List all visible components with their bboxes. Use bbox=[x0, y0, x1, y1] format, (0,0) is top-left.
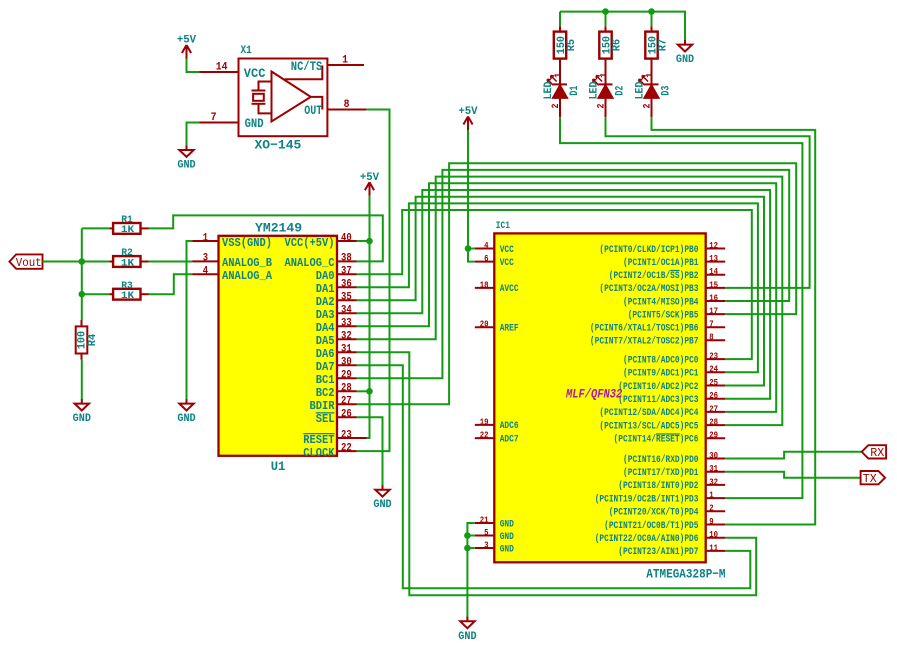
wire X1 OUT to U1 CLOCK bbox=[357, 110, 390, 452]
connector flag TX bbox=[861, 471, 886, 486]
connector flag Vout bbox=[9, 254, 42, 270]
wire R2 to U1 ANALOG_B bbox=[149, 261, 193, 263]
svg-text:BC1: BC1 bbox=[316, 373, 335, 387]
X1 pin 7 GND bbox=[200, 112, 264, 131]
resistor R3 1K bbox=[109, 280, 148, 302]
svg-text:22: 22 bbox=[480, 430, 489, 441]
svg-text:29: 29 bbox=[709, 430, 718, 441]
svg-text:32: 32 bbox=[341, 331, 352, 343]
U1 pin 28 BC2 bbox=[316, 383, 357, 401]
svg-text:35: 35 bbox=[341, 292, 352, 304]
wire DA7 to PD7 bbox=[357, 365, 751, 588]
svg-text:16: 16 bbox=[709, 292, 718, 303]
IC1 pin 20 AREF bbox=[475, 319, 519, 335]
IC1 pin 19 ADC6 bbox=[475, 416, 519, 432]
svg-text:28: 28 bbox=[341, 383, 352, 395]
svg-text:GND: GND bbox=[177, 160, 196, 172]
svg-text:(PCINT14/RESET)PC6: (PCINT14/RESET)PC6 bbox=[614, 434, 699, 446]
wire PD1 to TX flag bbox=[725, 472, 860, 478]
IC1 pin 13 (PCINT1/OC1A)PB1 bbox=[623, 253, 725, 269]
wire DA3 to PC3 bbox=[357, 190, 771, 399]
IC1 pin 14 (PCINT2/OC1B/SS)PB2 bbox=[609, 266, 725, 282]
svg-text:25: 25 bbox=[709, 377, 718, 388]
svg-text:DA6: DA6 bbox=[316, 347, 335, 361]
crystal inside X1 bbox=[252, 82, 272, 114]
svg-text:VCC: VCC bbox=[500, 258, 514, 269]
svg-text:VCC(+5V): VCC(+5V) bbox=[285, 236, 335, 250]
X1 pin 1 NC/TS bbox=[291, 55, 364, 75]
IC1 pin 6 VCC bbox=[475, 253, 514, 269]
wire DA4 to PC4 bbox=[357, 183, 777, 412]
svg-text:YM2149: YM2149 bbox=[255, 221, 302, 236]
svg-text:(PCINT16/RXD)PD0: (PCINT16/RXD)PD0 bbox=[623, 454, 699, 466]
svg-text:D1: D1 bbox=[569, 85, 581, 95]
svg-text:(PCINT19/OC2B/INT1)PD3: (PCINT19/OC2B/INT1)PD3 bbox=[595, 493, 699, 505]
+5V supply bbox=[458, 106, 478, 130]
resistor R2 1K bbox=[109, 247, 148, 269]
wire X1 pin 7 to ground bbox=[187, 123, 200, 146]
node IC1 VCC junction bbox=[465, 245, 472, 252]
oscillator X1 body bbox=[239, 59, 328, 137]
svg-text:(PCINT10/ADC2)PC2: (PCINT10/ADC2)PC2 bbox=[618, 381, 698, 393]
svg-text:(PCINT21/OC0B/T1)PD5: (PCINT21/OC0B/T1)PD5 bbox=[604, 520, 698, 532]
svg-text:(PCINT20/XCK/T0)PD4: (PCINT20/XCK/T0)PD4 bbox=[609, 507, 699, 519]
wire U1 VSS pin1 to ground bbox=[187, 241, 193, 400]
svg-text:GND: GND bbox=[500, 532, 514, 543]
svg-text:27: 27 bbox=[341, 396, 352, 408]
svg-text:(PCINT18/INT0)PD2: (PCINT18/INT0)PD2 bbox=[618, 480, 698, 492]
svg-text:(PCINT2/OC1B/SS)PB2: (PCINT2/OC1B/SS)PB2 bbox=[609, 270, 699, 282]
node rail/R7 junction bbox=[648, 8, 655, 15]
wire IC1 pin5 stub bbox=[467, 535, 474, 537]
wire Vout to junction bbox=[43, 261, 82, 263]
svg-text:10: 10 bbox=[709, 529, 718, 540]
svg-text:+5V: +5V bbox=[360, 172, 380, 184]
X1 internal connection to OUT bbox=[311, 97, 323, 110]
U1 pin 34 DA3 bbox=[316, 305, 357, 323]
svg-text:SEL: SEL bbox=[316, 412, 335, 426]
svg-text:D3: D3 bbox=[660, 85, 672, 95]
U1 pin 35 DA2 bbox=[316, 292, 357, 310]
svg-text:21: 21 bbox=[480, 514, 489, 525]
svg-text:AREF: AREF bbox=[500, 324, 519, 335]
svg-text:LED: LED bbox=[543, 81, 555, 99]
svg-text:11: 11 bbox=[709, 542, 718, 553]
svg-text:1: 1 bbox=[203, 232, 209, 244]
svg-text:GND: GND bbox=[676, 54, 695, 66]
IC U1 YM2149 body bbox=[219, 236, 338, 456]
ground at LED rail bbox=[676, 40, 695, 66]
svg-text:DA0: DA0 bbox=[316, 269, 335, 283]
svg-text:30: 30 bbox=[709, 450, 718, 461]
IC1 pin 4 VCC bbox=[475, 240, 514, 256]
svg-text:NC/TS: NC/TS bbox=[291, 60, 323, 74]
svg-text:(PCINT22/OC0A/AIN0)PD6: (PCINT22/OC0A/AIN0)PD6 bbox=[595, 533, 699, 545]
node rail/R6 junction bbox=[602, 8, 609, 15]
svg-text:(PCINT23/AIN1)PD7: (PCINT23/AIN1)PD7 bbox=[618, 546, 698, 558]
connector flag RX bbox=[862, 445, 886, 460]
svg-text:GND: GND bbox=[458, 631, 477, 643]
svg-text:(PCINT12/SDA/ADC4)PC4: (PCINT12/SDA/ADC4)PC4 bbox=[599, 407, 698, 419]
node Vout/R3 junction bbox=[79, 291, 86, 298]
svg-text:IC1: IC1 bbox=[496, 221, 510, 232]
svg-text:33: 33 bbox=[341, 318, 352, 330]
svg-text:GND: GND bbox=[177, 413, 196, 425]
svg-text:GND: GND bbox=[245, 117, 264, 131]
svg-text:8: 8 bbox=[344, 99, 350, 111]
IC1 pin 26 (PCINT11/ADC3)PC3 bbox=[618, 390, 725, 406]
wire rail to R5 bbox=[559, 12, 561, 27]
svg-text:ADC7: ADC7 bbox=[500, 434, 519, 445]
IC1 pin 21 GND bbox=[475, 514, 514, 530]
svg-text:R6: R6 bbox=[612, 39, 624, 51]
svg-text:GND: GND bbox=[500, 519, 514, 530]
U1 pin 33 DA4 bbox=[316, 318, 357, 336]
IC1 pin 12 (PCINT0/CLKD/ICP1)PB0 bbox=[599, 240, 725, 256]
wire PD0 to RX flag bbox=[725, 452, 862, 459]
ground below R4 bbox=[73, 399, 92, 425]
svg-text:DA3: DA3 bbox=[316, 308, 335, 322]
IC1 pin 22 ADC7 bbox=[475, 430, 519, 446]
svg-text:XO−145: XO−145 bbox=[255, 138, 302, 153]
svg-text:37: 37 bbox=[341, 266, 352, 278]
U1 pin 37 DA0 bbox=[316, 266, 357, 284]
ground below IC1 bbox=[458, 617, 477, 643]
svg-text:(PCINT8/ADC0)PC0: (PCINT8/ADC0)PC0 bbox=[623, 354, 699, 366]
resistor R4 100 bbox=[76, 320, 99, 360]
U1 pin 31 DA6 bbox=[316, 344, 357, 362]
svg-text:(PCINT7/XTAL2/TOSC2)PB7: (PCINT7/XTAL2/TOSC2)PB7 bbox=[590, 336, 699, 348]
svg-text:23: 23 bbox=[709, 351, 718, 362]
wire U1 BC2 to +5V rail bbox=[357, 390, 370, 392]
svg-text:(PCINT3/OC2A/MOSI)PB3: (PCINT3/OC2A/MOSI)PB3 bbox=[599, 283, 698, 295]
svg-text:ANALOG_C: ANALOG_C bbox=[285, 256, 335, 270]
wire DA6 to PD6 bbox=[357, 352, 757, 595]
svg-text:23: 23 bbox=[341, 429, 352, 441]
svg-text:(PCINT0/CLKD/ICP1)PB0: (PCINT0/CLKD/ICP1)PB0 bbox=[599, 244, 698, 256]
wire junction to R1 left bbox=[82, 227, 110, 229]
wire LED ground rail bbox=[560, 12, 685, 41]
wire DA5 to PC5 bbox=[357, 177, 783, 426]
node BC2 junction bbox=[366, 388, 373, 395]
svg-text:2: 2 bbox=[551, 104, 562, 109]
svg-text:1K: 1K bbox=[121, 224, 135, 236]
wire IC1 GND pins to ground bbox=[467, 523, 474, 618]
wire BDIR to PB5 bbox=[357, 163, 797, 404]
svg-text:R4: R4 bbox=[87, 333, 99, 346]
svg-text:1: 1 bbox=[554, 73, 565, 78]
svg-text:TX: TX bbox=[863, 472, 877, 486]
U1 pin 40 VCC(+5V) bbox=[285, 232, 357, 250]
svg-text:(PCINT4/MISO)PB4: (PCINT4/MISO)PB4 bbox=[623, 296, 699, 308]
IC1 pin 8 (PCINT7/XTAL2/TOSC2)PB7 bbox=[590, 332, 725, 348]
svg-text:DA4: DA4 bbox=[316, 321, 335, 335]
wire R3 to U1 ANALOG_A bbox=[149, 274, 193, 294]
svg-text:DA2: DA2 bbox=[316, 295, 335, 309]
svg-text:GND: GND bbox=[373, 499, 392, 511]
svg-text:14: 14 bbox=[709, 266, 718, 277]
wire D1 to PD3 bbox=[560, 117, 802, 498]
IC1 pin 17 (PCINT5/SCK)PB5 bbox=[628, 306, 726, 322]
IC1 pin 10 (PCINT22/OC0A/AIN0)PD6 bbox=[595, 529, 726, 545]
svg-text:17: 17 bbox=[709, 306, 718, 317]
wire DA0 to PC0 bbox=[357, 210, 752, 359]
node +5V/pin40 junction bbox=[366, 238, 373, 245]
svg-text:38: 38 bbox=[341, 253, 352, 265]
svg-text:2: 2 bbox=[596, 104, 607, 109]
svg-text:26: 26 bbox=[341, 409, 352, 421]
svg-text:(PCINT5/SCK)PB5: (PCINT5/SCK)PB5 bbox=[628, 309, 699, 321]
wire DA1 to PC1 bbox=[357, 203, 758, 372]
svg-text:7: 7 bbox=[211, 112, 217, 124]
resistor R1 1K bbox=[109, 214, 148, 236]
LED D3 bbox=[635, 73, 673, 117]
svg-text:R5: R5 bbox=[566, 39, 578, 52]
svg-text:VCC: VCC bbox=[500, 245, 514, 256]
svg-text:VSS(GND): VSS(GND) bbox=[222, 236, 272, 250]
wire junction to R2 left bbox=[82, 261, 110, 263]
IC1 pin 15 (PCINT3/OC2A/MOSI)PB3 bbox=[599, 279, 725, 295]
wire rail to R7 bbox=[651, 12, 653, 27]
IC1 pin 18 AVCC bbox=[475, 279, 519, 295]
resistor R5 150 bbox=[554, 26, 578, 84]
svg-text:2: 2 bbox=[642, 104, 653, 109]
+5V supply bbox=[177, 35, 197, 59]
IC1 pin 2 (PCINT20/XCK/T0)PD4 bbox=[609, 503, 725, 519]
IC IC1 ATMEGA328P-M body bbox=[494, 233, 705, 562]
node IC1 GND pin3 junction bbox=[464, 545, 471, 552]
wire +5V to IC1 VCC pins bbox=[468, 130, 475, 262]
svg-text:VCC: VCC bbox=[244, 67, 266, 81]
U1 pin 3 ANALOG_B bbox=[193, 253, 273, 271]
svg-text:19: 19 bbox=[480, 416, 489, 427]
IC1 pin 16 (PCINT4/MISO)PB4 bbox=[623, 292, 725, 308]
svg-text:(PCINT17/TXD)PD1: (PCINT17/TXD)PD1 bbox=[623, 467, 699, 479]
svg-text:4: 4 bbox=[484, 240, 489, 251]
U1 pin 38 ANALOG_C bbox=[285, 253, 357, 271]
svg-text:1K: 1K bbox=[121, 257, 135, 269]
U1 pin 32 DA5 bbox=[316, 331, 357, 349]
wire BC1 to PB4 bbox=[357, 170, 790, 378]
svg-text:GND: GND bbox=[500, 544, 514, 555]
IC1 pin 5 GND bbox=[475, 527, 514, 543]
wire rail to R6 bbox=[605, 12, 607, 27]
svg-text:BDIR: BDIR bbox=[310, 399, 336, 413]
svg-text:MLF/QFN32: MLF/QFN32 bbox=[565, 386, 622, 401]
resistor R7 150 bbox=[645, 26, 669, 84]
IC1 pin 11 (PCINT23/AIN1)PD7 bbox=[618, 542, 725, 558]
svg-text:30: 30 bbox=[341, 357, 352, 369]
svg-text:1: 1 bbox=[342, 55, 348, 67]
wire D2 to PB3 bbox=[606, 117, 810, 288]
svg-text:ATMEGA328P−M: ATMEGA328P−M bbox=[646, 566, 725, 581]
svg-text:(PCINT1/OC1A)PB1: (PCINT1/OC1A)PB1 bbox=[623, 257, 699, 269]
IC1 pin 25 (PCINT10/ADC2)PC2 bbox=[618, 377, 725, 393]
U1 pin 23 RESET bbox=[303, 429, 366, 447]
svg-text:40: 40 bbox=[341, 232, 352, 244]
svg-text:3: 3 bbox=[484, 539, 489, 550]
svg-text:9: 9 bbox=[709, 516, 714, 527]
svg-text:28: 28 bbox=[709, 417, 718, 428]
wire IC1 pin3 stub bbox=[467, 547, 474, 549]
U1 pin 27 BDIR bbox=[310, 396, 357, 414]
svg-text:27: 27 bbox=[709, 403, 718, 414]
svg-text:4: 4 bbox=[203, 266, 209, 278]
svg-text:LED: LED bbox=[635, 81, 647, 99]
svg-text:RESET: RESET bbox=[303, 433, 334, 447]
svg-text:DA1: DA1 bbox=[316, 282, 335, 296]
U1 pin 30 DA7 bbox=[316, 357, 357, 375]
IC1 pin 1 (PCINT19/OC2B/INT1)PD3 bbox=[595, 490, 726, 506]
svg-text:DA7: DA7 bbox=[316, 360, 335, 374]
LED D2 bbox=[589, 73, 627, 117]
IC1 pin 23 (PCINT8/ADC0)PC0 bbox=[623, 351, 725, 367]
svg-text:31: 31 bbox=[341, 344, 352, 356]
wire Vout net vertical bbox=[81, 228, 83, 294]
U1 pin 1 VSS(GND) bbox=[193, 232, 273, 250]
svg-text:1: 1 bbox=[709, 490, 714, 501]
svg-text:CLOCK: CLOCK bbox=[303, 446, 335, 460]
X1 pin 14 VCC bbox=[200, 62, 266, 82]
svg-text:R7: R7 bbox=[658, 39, 670, 51]
svg-text:8: 8 bbox=[709, 332, 714, 343]
wire R1 to U1 ANALOG_C bbox=[149, 215, 383, 261]
IC1 pin 7 (PCINT6/XTAL1/TOSC1)PB6 bbox=[590, 319, 725, 335]
IC1 pin 3 GND bbox=[475, 539, 514, 555]
svg-text:(PCINT11/ADC3)PC3: (PCINT11/ADC3)PC3 bbox=[618, 394, 698, 406]
svg-text:RX: RX bbox=[870, 446, 884, 460]
wire U1 SEL to ground bbox=[357, 417, 383, 486]
svg-text:15: 15 bbox=[709, 279, 718, 290]
U1 pin 26 SEL bbox=[316, 409, 357, 427]
IC1 pin 9 (PCINT21/OC0B/T1)PD5 bbox=[604, 516, 725, 532]
svg-text:LED: LED bbox=[589, 81, 601, 99]
ground at U1 SEL bbox=[373, 485, 392, 511]
svg-text:5: 5 bbox=[484, 527, 489, 538]
svg-text:13: 13 bbox=[709, 253, 718, 264]
wire +5V to X1 pin 14 bbox=[187, 59, 200, 73]
LED D1 bbox=[543, 73, 581, 117]
svg-text:32: 32 bbox=[709, 476, 718, 487]
ground at U1 VSS bbox=[177, 399, 196, 425]
svg-text:(PCINT13/SCL/ADC5)PC5: (PCINT13/SCL/ADC5)PC5 bbox=[599, 420, 698, 432]
wire D3 to PD5 bbox=[652, 117, 816, 524]
svg-text:+5V: +5V bbox=[177, 35, 197, 47]
svg-text:U1: U1 bbox=[271, 459, 286, 474]
svg-text:12: 12 bbox=[709, 240, 718, 251]
IC1 pin 24 (PCINT9/ADC1)PC1 bbox=[623, 364, 725, 380]
svg-text:29: 29 bbox=[341, 370, 352, 382]
svg-text:OUT: OUT bbox=[304, 104, 322, 118]
U1 pin 22 CLOCK bbox=[303, 442, 356, 460]
svg-text:DA5: DA5 bbox=[316, 334, 335, 348]
node Vout/R2 junction bbox=[79, 258, 86, 265]
svg-text:26: 26 bbox=[709, 390, 718, 401]
wire R3 junction to R4 bbox=[81, 294, 83, 320]
X1 pin 8 OUT bbox=[304, 99, 366, 118]
svg-text:7: 7 bbox=[709, 319, 714, 330]
svg-text:GND: GND bbox=[73, 413, 92, 425]
svg-text:+5V: +5V bbox=[458, 106, 478, 118]
svg-text:D2: D2 bbox=[614, 86, 626, 96]
svg-text:BC2: BC2 bbox=[316, 386, 335, 400]
wire junction to R3 left bbox=[82, 293, 110, 295]
IC1 pin 31 (PCINT17/TXD)PD1 bbox=[623, 463, 725, 479]
svg-text:ANALOG_A: ANALOG_A bbox=[222, 269, 273, 283]
svg-text:(PCINT6/XTAL1/TOSC1)PB6: (PCINT6/XTAL1/TOSC1)PB6 bbox=[590, 323, 699, 335]
svg-text:18: 18 bbox=[480, 279, 489, 290]
wire +5V to U1 VCC pin 40 and down to RESET bbox=[367, 196, 370, 438]
IC1 pin 28 (PCINT13/SCL/ADC5)PC5 bbox=[599, 417, 725, 433]
svg-text:34: 34 bbox=[341, 305, 352, 317]
U1 pin 4 ANALOG_A bbox=[193, 266, 273, 284]
U1 pin 29 BC1 bbox=[316, 370, 357, 388]
svg-text:(PCINT9/ADC1)PC1: (PCINT9/ADC1)PC1 bbox=[623, 368, 699, 380]
IC1 pin 27 (PCINT12/SDA/ADC4)PC4 bbox=[599, 403, 725, 419]
svg-text:ADC6: ADC6 bbox=[500, 421, 519, 432]
svg-text:1: 1 bbox=[599, 73, 610, 78]
svg-text:3: 3 bbox=[203, 253, 209, 265]
+5V supply bbox=[360, 172, 380, 196]
node IC1 GND pin5 junction bbox=[464, 532, 471, 539]
wire IC1 pin4 stub bbox=[468, 248, 475, 250]
svg-text:AVCC: AVCC bbox=[500, 284, 519, 295]
svg-text:ANALOG_B: ANALOG_B bbox=[222, 256, 272, 270]
X1 internal connection to NC/TS bbox=[285, 65, 323, 79]
svg-text:6: 6 bbox=[484, 253, 489, 264]
svg-text:36: 36 bbox=[341, 279, 352, 291]
svg-text:14: 14 bbox=[216, 62, 228, 74]
svg-text:2: 2 bbox=[709, 503, 714, 514]
wire R4 to ground bbox=[81, 360, 83, 400]
ground at X1 bbox=[177, 146, 196, 172]
IC1 pin 29 (PCINT14/RESET)PC6 bbox=[614, 430, 726, 446]
U1 pin 36 DA1 bbox=[316, 279, 357, 297]
wire U1 pin40 stub to +5V rail bbox=[357, 240, 370, 242]
svg-text:1K: 1K bbox=[121, 290, 135, 302]
IC1 pin 30 (PCINT16/RXD)PD0 bbox=[623, 450, 725, 466]
svg-text:X1: X1 bbox=[241, 45, 253, 57]
svg-text:24: 24 bbox=[709, 364, 718, 375]
svg-text:Vout: Vout bbox=[16, 256, 42, 270]
wire DA2 to PC2 bbox=[357, 197, 765, 386]
resistor R6 150 bbox=[599, 26, 623, 84]
IC1 pin 32 (PCINT18/INT0)PD2 bbox=[618, 476, 725, 492]
svg-text:22: 22 bbox=[341, 442, 352, 454]
svg-text:20: 20 bbox=[480, 319, 489, 330]
svg-text:31: 31 bbox=[709, 463, 718, 474]
svg-text:1: 1 bbox=[645, 73, 656, 78]
